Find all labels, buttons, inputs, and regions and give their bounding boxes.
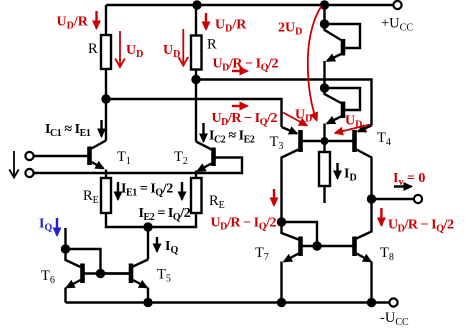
- node T5 T6 base: [96, 269, 105, 278]
- wire top supply rail: [106, 4, 393, 6]
- terminal input 2: [25, 169, 33, 177]
- wire node A horizontal (UD/R-IQ/2 upper) to T4 emitter: [196, 80, 372, 126]
- arrow red UD to T4: [335, 125, 370, 134]
- wire bottom supply rail: [66, 301, 390, 303]
- node T7 collector: [277, 217, 286, 226]
- transistor T7: [282, 222, 353, 303]
- node T5 emitter rail: [143, 298, 152, 307]
- resistor RE (left): [101, 178, 111, 213]
- wire left R branch top: [105, 5, 107, 35]
- terminal +UCC: [393, 1, 401, 9]
- node right R / T2 collector: [191, 75, 200, 84]
- node diode chain middle: [320, 83, 329, 92]
- arrow IQ at T5: [156, 237, 158, 252]
- arrow red UD to T3: [283, 113, 307, 126]
- arrow red T8 collector current: [380, 208, 382, 226]
- arrow red UD/R-IQ/2 middle: [232, 105, 248, 107]
- arrow input direction: [9, 151, 18, 178]
- arrow IC1: [100, 120, 102, 137]
- transistor diode Qa: [325, 24, 361, 88]
- arrow Iv output: [394, 185, 412, 187]
- transistor T2: [33, 142, 242, 179]
- resistor R (right): [191, 36, 202, 70]
- wire RE bottoms joined: [106, 213, 196, 260]
- wire node B horizontal (to T3 emitter): [106, 99, 282, 127]
- transistor T8: [355, 199, 372, 303]
- wire right R to node: [195, 70, 197, 142]
- arrow IE1: [117, 182, 119, 200]
- arrow blue IQ input: [56, 218, 58, 236]
- node T7 T8 base: [312, 241, 321, 250]
- arrow red T3 collector current: [273, 189, 275, 206]
- node T8 emitter rail: [367, 298, 376, 307]
- node output junction: [367, 194, 376, 203]
- arrow red 2UD curve: [308, 6, 322, 121]
- resistor RE (right): [191, 178, 202, 213]
- arrow red UD/R right: [205, 13, 207, 30]
- arrow ID: [336, 163, 338, 179]
- svg-text:Iv = 0: Iv = 0: [393, 171, 425, 188]
- terminal input 1: [25, 152, 33, 160]
- arrow red UD/R-IQ/2 upper: [232, 70, 248, 72]
- node diode chain top: [320, 19, 329, 28]
- node top rail diode chain: [320, 0, 329, 9]
- resistor ID load: [319, 141, 330, 203]
- wire left R to node: [105, 69, 107, 141]
- transistor T5: [101, 260, 149, 303]
- wire output: [372, 198, 414, 200]
- wire common emitter node down to T5: [147, 227, 149, 260]
- svg-text:R: R: [207, 37, 217, 53]
- resistor R (left): [101, 35, 111, 69]
- arrow red UD right: [179, 29, 189, 66]
- node left R / T1 collector: [101, 94, 110, 103]
- node T6 collector: [61, 244, 70, 253]
- terminal output: [414, 195, 422, 203]
- node T3 T4 base: [321, 137, 329, 145]
- node T7 emitter rail: [277, 298, 286, 307]
- svg-text:R: R: [88, 41, 98, 57]
- wire right R branch top: [195, 5, 197, 36]
- transistor T4: [329, 126, 372, 200]
- wire rail to diode chain: [323, 5, 325, 24]
- transistor T3: [282, 127, 321, 222]
- node top rail right branch: [192, 0, 201, 9]
- arrow IE2: [181, 182, 183, 200]
- arrow IC2: [202, 123, 204, 142]
- transistor diode Qb: [325, 88, 361, 141]
- terminal -UCC: [389, 298, 397, 306]
- transistor T6: [66, 228, 130, 303]
- arrow red UD left: [115, 31, 125, 67]
- transistor T1: [33, 141, 106, 179]
- node RE junction: [143, 222, 152, 231]
- arrow red UD/R left: [95, 11, 97, 29]
